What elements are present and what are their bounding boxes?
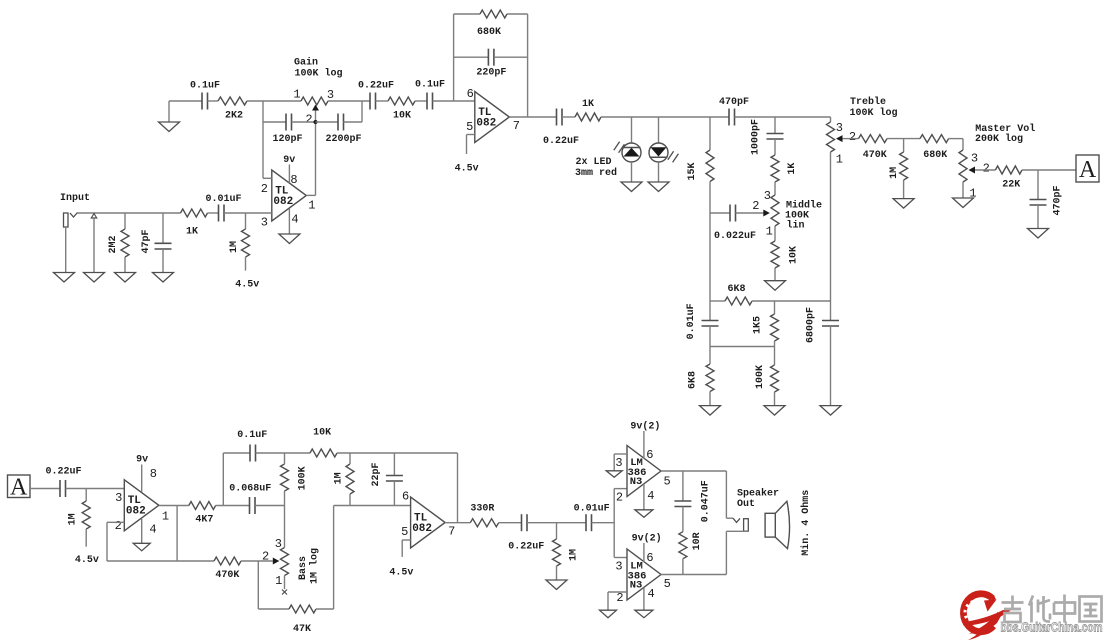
- svg-text:2: 2: [115, 519, 122, 533]
- svg-text:bbs.GuitarChina.com: bbs.GuitarChina.com: [1001, 620, 1103, 635]
- wire: [562, 116, 575, 118]
- svg-text:2: 2: [616, 591, 623, 605]
- svg-text:1: 1: [275, 574, 282, 588]
- svg-text:2: 2: [983, 162, 990, 176]
- svg-text:082: 082: [476, 117, 496, 129]
- ground LED D1: [621, 162, 642, 192]
- svg-text:6800pF: 6800pF: [805, 307, 816, 343]
- svg-text:2: 2: [262, 549, 269, 563]
- capacitor 2200pF: [316, 114, 362, 145]
- svg-text:4.5v: 4.5v: [75, 555, 99, 566]
- svg-text:5: 5: [664, 577, 671, 591]
- wire: [527, 522, 586, 524]
- svg-text:200K log: 200K log: [975, 133, 1023, 145]
- wire: [224, 212, 272, 214]
- svg-text:2K2: 2K2: [225, 111, 243, 122]
- potentiometer Gain 100K log: [293, 57, 342, 127]
- wire: [710, 346, 775, 348]
- wire: [328, 100, 370, 102]
- op-amp U2A TL082: [115, 467, 170, 536]
- wire: [433, 100, 475, 102]
- svg-text:0.22uF: 0.22uF: [358, 81, 394, 92]
- wire: [830, 117, 832, 122]
- wire feedback left: [453, 14, 455, 101]
- svg-text:0.01uF: 0.01uF: [574, 503, 610, 514]
- svg-text:0.047uF: 0.047uF: [701, 480, 712, 522]
- svg-text:5: 5: [663, 475, 670, 489]
- potentiometer Master Vol 200K log: [959, 123, 1035, 201]
- capacitor 0.022uF: [710, 205, 756, 242]
- input jack: [64, 213, 78, 228]
- wire: [30, 488, 60, 490]
- svg-text:7: 7: [513, 119, 520, 133]
- wire output U2B: [445, 522, 470, 524]
- capacitor 47pF: [141, 213, 172, 273]
- resistor 1K out: [575, 99, 601, 121]
- svg-text:6K8: 6K8: [687, 371, 698, 389]
- capacitor 0.01uF tone: [686, 301, 718, 347]
- svg-text:1K: 1K: [787, 163, 798, 175]
- ground U2A pin4: [133, 519, 150, 551]
- svg-text:Bass: Bass: [298, 556, 309, 580]
- power 4.5v bias: [235, 279, 259, 290]
- svg-text:470pF: 470pF: [1053, 185, 1064, 215]
- svg-text:1: 1: [293, 88, 300, 102]
- svg-text:1: 1: [766, 225, 773, 239]
- resistor 10K middle: [771, 226, 799, 281]
- svg-text:0.068uF: 0.068uF: [229, 483, 271, 494]
- ground jack: [54, 227, 75, 282]
- resistor 22K: [995, 166, 1022, 190]
- wire: [208, 100, 219, 102]
- wire treble pin1: [830, 152, 832, 301]
- resistor 2M2: [108, 213, 129, 273]
- svg-text:3: 3: [615, 560, 622, 574]
- wire: [316, 506, 411, 610]
- svg-text:4: 4: [291, 213, 298, 227]
- svg-text:47K: 47K: [293, 624, 311, 635]
- wire wiper gain: [315, 111, 317, 196]
- resistor 10K: [388, 97, 415, 122]
- svg-text:1M: 1M: [67, 513, 78, 525]
- svg-text:220pF: 220pF: [476, 68, 506, 79]
- wire: [292, 121, 316, 123]
- svg-text:10K: 10K: [313, 428, 331, 439]
- wire riser: [223, 453, 250, 506]
- svg-text:100K: 100K: [298, 466, 309, 490]
- svg-text:100K log: 100K log: [294, 68, 342, 80]
- resistor 6K8 v: [687, 347, 714, 406]
- svg-text:10K: 10K: [393, 111, 411, 122]
- svg-text:9v(2): 9v(2): [632, 533, 662, 545]
- svg-text:2: 2: [305, 113, 312, 127]
- svg-text:0.22uF: 0.22uF: [543, 136, 579, 147]
- wire output U1B: [509, 116, 556, 118]
- capacitor 0.22uF A: [45, 466, 81, 497]
- ground master: [953, 182, 974, 208]
- svg-text:3: 3: [275, 537, 282, 551]
- svg-text:082: 082: [412, 523, 432, 535]
- wire output U2A: [159, 505, 189, 507]
- wire: [256, 452, 311, 454]
- wire: [78, 212, 181, 214]
- power 9v(2) U3: [630, 420, 660, 458]
- capacitor 0.1uF: [190, 81, 220, 110]
- node A top box: [1076, 155, 1099, 183]
- capacitor 0.22uF: [358, 81, 394, 110]
- resistor 100K tone: [755, 347, 778, 406]
- capacitor 470pF mid: [719, 97, 749, 126]
- svg-text:22pF: 22pF: [371, 462, 382, 486]
- svg-text:8: 8: [290, 173, 297, 187]
- svg-text:A: A: [10, 474, 28, 500]
- speaker: [765, 490, 812, 556]
- svg-text:100K: 100K: [755, 365, 766, 389]
- svg-text:1M: 1M: [229, 241, 240, 253]
- LED D2: [649, 117, 678, 162]
- ground 470pF out: [1028, 229, 1049, 239]
- svg-text:7: 7: [448, 524, 455, 538]
- resistor 680K: [454, 10, 528, 38]
- resistor 10R: [679, 507, 703, 575]
- svg-text:4.5v: 4.5v: [235, 279, 259, 290]
- svg-text:8: 8: [150, 467, 157, 481]
- svg-text:Gain: Gain: [294, 57, 318, 69]
- svg-text:3: 3: [327, 88, 334, 102]
- power 4.5v U2B: [389, 540, 413, 579]
- capacitor 22pF: [371, 453, 403, 506]
- wire: [176, 506, 178, 562]
- svg-text:470K: 470K: [215, 570, 239, 581]
- svg-text:3: 3: [615, 456, 622, 470]
- amplifier U3 LM386: [615, 446, 670, 505]
- wire: [735, 116, 831, 118]
- node A1: [262, 101, 264, 178]
- wire: [247, 100, 301, 102]
- op-amp U2B TL082: [401, 490, 455, 548]
- wire feedback U2A: [107, 522, 214, 561]
- wire output U3: [661, 470, 727, 472]
- resistor 1M A: [67, 489, 90, 547]
- power 4.5v A: [75, 555, 99, 566]
- capacitor 220pF: [454, 49, 528, 79]
- capacitor 0.22uF out: [543, 109, 579, 147]
- svg-text:Treble: Treble: [850, 96, 886, 108]
- op-amp U1B TL082: [466, 87, 520, 143]
- wire: [337, 452, 458, 454]
- ground sleeve: [84, 273, 105, 283]
- capacitor 6800pF: [805, 301, 839, 406]
- svg-text:1: 1: [836, 153, 843, 167]
- capacitor 0.22uF drive: [508, 514, 544, 552]
- svg-text:0.22uF: 0.22uF: [45, 466, 81, 477]
- wire: [887, 138, 920, 140]
- wire feedback U2B: [457, 453, 459, 523]
- ground LED D2: [648, 162, 669, 192]
- ground U3 pin4: [635, 484, 653, 517]
- svg-text:2: 2: [261, 182, 268, 196]
- resistor 15K: [687, 117, 714, 181]
- power 9v U2A: [136, 454, 148, 492]
- svg-text:9v(2): 9v(2): [630, 420, 660, 432]
- potentiometer Treble 100K log: [827, 96, 898, 167]
- node A bottom box: [8, 474, 31, 500]
- capacitor 0.047uF: [674, 471, 711, 522]
- pin1 x mark: [282, 576, 287, 595]
- svg-text:4: 4: [647, 489, 654, 503]
- svg-text:2M2: 2M2: [108, 235, 119, 253]
- amplifier U4 LM386: [615, 549, 670, 605]
- svg-text:4.5v: 4.5v: [389, 568, 413, 579]
- svg-text:22K: 22K: [1002, 179, 1020, 190]
- capacitor 0.01uF drive: [574, 503, 610, 531]
- wire bass pin3: [284, 506, 286, 548]
- resistor 100K bass: [281, 453, 309, 506]
- svg-text:3mm red: 3mm red: [575, 167, 617, 179]
- wire: [216, 505, 250, 507]
- wire output U1A: [306, 194, 315, 196]
- svg-text:0.1uF: 0.1uF: [237, 430, 267, 441]
- svg-text:10K: 10K: [788, 246, 799, 264]
- svg-text:10R: 10R: [692, 532, 703, 550]
- svg-text:Speaker: Speaker: [737, 487, 779, 499]
- svg-text:lin: lin: [786, 219, 804, 231]
- power 9v U1A: [283, 155, 295, 183]
- svg-text:1K: 1K: [582, 99, 594, 110]
- ground 47pF: [153, 273, 174, 283]
- ground 6800pF: [820, 406, 841, 416]
- ground U4 pin2: [600, 592, 628, 618]
- svg-text:4K7: 4K7: [195, 515, 213, 526]
- ground U4 pin4: [635, 588, 653, 618]
- wire 47K loop: [258, 561, 289, 609]
- capacitor 0.1uF b: [415, 80, 445, 110]
- svg-text:1K5: 1K5: [752, 316, 763, 334]
- svg-text:0.1uF: 0.1uF: [415, 80, 445, 91]
- svg-text:1: 1: [308, 199, 315, 213]
- wire: [601, 116, 729, 118]
- wire: [415, 100, 427, 102]
- capacitor 1000pF: [750, 117, 783, 155]
- capacitor 0.068uF: [229, 483, 271, 514]
- svg-text:Input: Input: [60, 193, 90, 204]
- ground 6K8: [700, 406, 721, 416]
- wire feedback right: [527, 14, 529, 117]
- wire: [1022, 169, 1076, 171]
- wire: [255, 505, 285, 507]
- svg-text:3: 3: [261, 216, 268, 230]
- resistor 2K2: [218, 97, 247, 122]
- svg-text:2200pF: 2200pF: [325, 134, 361, 145]
- op-amp U1A TL082: [261, 170, 316, 230]
- label Speaker Out: [737, 487, 779, 510]
- wire pin2: [263, 177, 272, 179]
- wire: [709, 182, 711, 302]
- resistor 4K7: [189, 502, 216, 526]
- svg-text:Min. 4 Ohms: Min. 4 Ohms: [800, 490, 812, 556]
- power 4.5v U1B: [455, 135, 479, 175]
- svg-text:1M log: 1M log: [308, 548, 320, 584]
- wire wiper middle: [736, 212, 764, 214]
- svg-text:1M: 1M: [334, 472, 345, 484]
- ground U1A pin4: [279, 209, 300, 244]
- svg-text:1: 1: [162, 510, 169, 524]
- resistor 47K: [289, 605, 316, 635]
- svg-text:47pF: 47pF: [141, 229, 152, 253]
- svg-text:3: 3: [764, 189, 771, 203]
- resistor 1K5: [752, 301, 778, 347]
- potentiometer Middle 100K lin: [752, 189, 822, 239]
- svg-text:0.01uF: 0.01uF: [686, 303, 697, 339]
- svg-text:9v: 9v: [283, 155, 295, 166]
- svg-text:1M: 1M: [889, 167, 900, 179]
- svg-text:2: 2: [849, 130, 856, 144]
- svg-text:680K: 680K: [923, 150, 947, 161]
- wire: [376, 100, 389, 102]
- svg-text:N3: N3: [630, 580, 643, 592]
- resistor 1M treble: [889, 139, 908, 199]
- label Input: [60, 193, 90, 204]
- resistor 10K bass: [310, 428, 337, 457]
- resistor 1K input: [181, 209, 208, 237]
- wire: [592, 522, 615, 524]
- wire: [499, 522, 522, 524]
- node dot: [314, 120, 318, 124]
- wire tee: [614, 489, 627, 558]
- svg-text:N3: N3: [630, 476, 643, 488]
- svg-text:0.01uF: 0.01uF: [205, 194, 241, 205]
- resistor 330R: [470, 503, 498, 526]
- wire: [241, 560, 273, 562]
- potentiometer Bass 1M log: [262, 537, 320, 588]
- svg-text:9v: 9v: [136, 454, 148, 465]
- svg-text:2x LED: 2x LED: [575, 157, 611, 168]
- wire: [344, 101, 363, 122]
- ground 1M drive: [546, 580, 567, 590]
- svg-text:4: 4: [647, 587, 654, 601]
- svg-text:15K: 15K: [687, 162, 698, 180]
- svg-text:470K: 470K: [863, 150, 887, 161]
- svg-text:6: 6: [402, 490, 409, 504]
- ground 1M treble: [893, 199, 914, 209]
- sleeve contact: [91, 214, 96, 273]
- svg-text:1000pF: 1000pF: [750, 119, 761, 155]
- svg-text:680K: 680K: [477, 27, 501, 38]
- ground middle: [765, 281, 786, 291]
- svg-text:3: 3: [115, 491, 122, 505]
- svg-text:100K log: 100K log: [849, 107, 897, 119]
- svg-text:A: A: [1079, 157, 1097, 183]
- svg-text:1K: 1K: [186, 226, 198, 237]
- capacitor 470pF out: [1030, 170, 1064, 229]
- svg-text:Master Vol: Master Vol: [975, 123, 1035, 135]
- ground 2M2: [115, 273, 136, 283]
- resistor 1K tone: [771, 139, 798, 195]
- svg-text:0.1uF: 0.1uF: [190, 81, 220, 92]
- svg-text:Out: Out: [737, 499, 755, 510]
- svg-text:4: 4: [149, 522, 156, 536]
- svg-text:0.022uF: 0.022uF: [714, 231, 756, 242]
- svg-text:6: 6: [467, 87, 474, 101]
- speaker jack: [726, 471, 748, 575]
- svg-text:5: 5: [466, 120, 473, 134]
- svg-text:4.5v: 4.5v: [455, 163, 479, 174]
- svg-text:3: 3: [836, 121, 843, 135]
- svg-text:6: 6: [646, 448, 653, 462]
- resistor 1M drive: [553, 523, 580, 580]
- ground: [159, 101, 180, 132]
- ground 100K: [764, 406, 785, 416]
- svg-text:2: 2: [752, 199, 759, 213]
- capacitor 120pF: [263, 114, 303, 145]
- label 2x LED: [575, 157, 617, 179]
- wire: [169, 100, 202, 102]
- svg-text:6: 6: [646, 551, 653, 565]
- watermark GuitarChina logo: [963, 593, 1103, 640]
- wire: [949, 139, 963, 150]
- svg-text:3: 3: [971, 152, 978, 166]
- wire wiper treble: [843, 138, 859, 140]
- svg-text:0.22uF: 0.22uF: [508, 542, 544, 553]
- svg-text:1M: 1M: [569, 549, 580, 561]
- wire: [66, 488, 125, 490]
- svg-text:470pF: 470pF: [719, 97, 749, 108]
- ground U3 pin3: [606, 454, 627, 477]
- capacitor 0.1uF bass: [237, 430, 267, 461]
- svg-text:082: 082: [273, 196, 293, 208]
- resistor 6K8 h: [710, 284, 831, 305]
- wire wiper master: [975, 169, 995, 171]
- resistor 470K: [859, 135, 888, 162]
- capacitor 0.01uF input: [205, 194, 241, 222]
- svg-text:2: 2: [616, 490, 623, 504]
- svg-text:5: 5: [401, 525, 408, 539]
- svg-text:330R: 330R: [470, 503, 494, 514]
- resistor 470K bass: [214, 557, 241, 581]
- resistor 1M bias: [229, 213, 249, 271]
- resistor 680K mix: [920, 135, 949, 162]
- svg-text:082: 082: [126, 506, 146, 518]
- power 9v(2) U4: [632, 533, 662, 563]
- svg-text:120pF: 120pF: [272, 134, 302, 145]
- LED D1: [614, 117, 641, 162]
- svg-text:6K8: 6K8: [727, 284, 745, 295]
- wire output U4: [661, 574, 727, 576]
- resistor 1M bass: [334, 453, 354, 506]
